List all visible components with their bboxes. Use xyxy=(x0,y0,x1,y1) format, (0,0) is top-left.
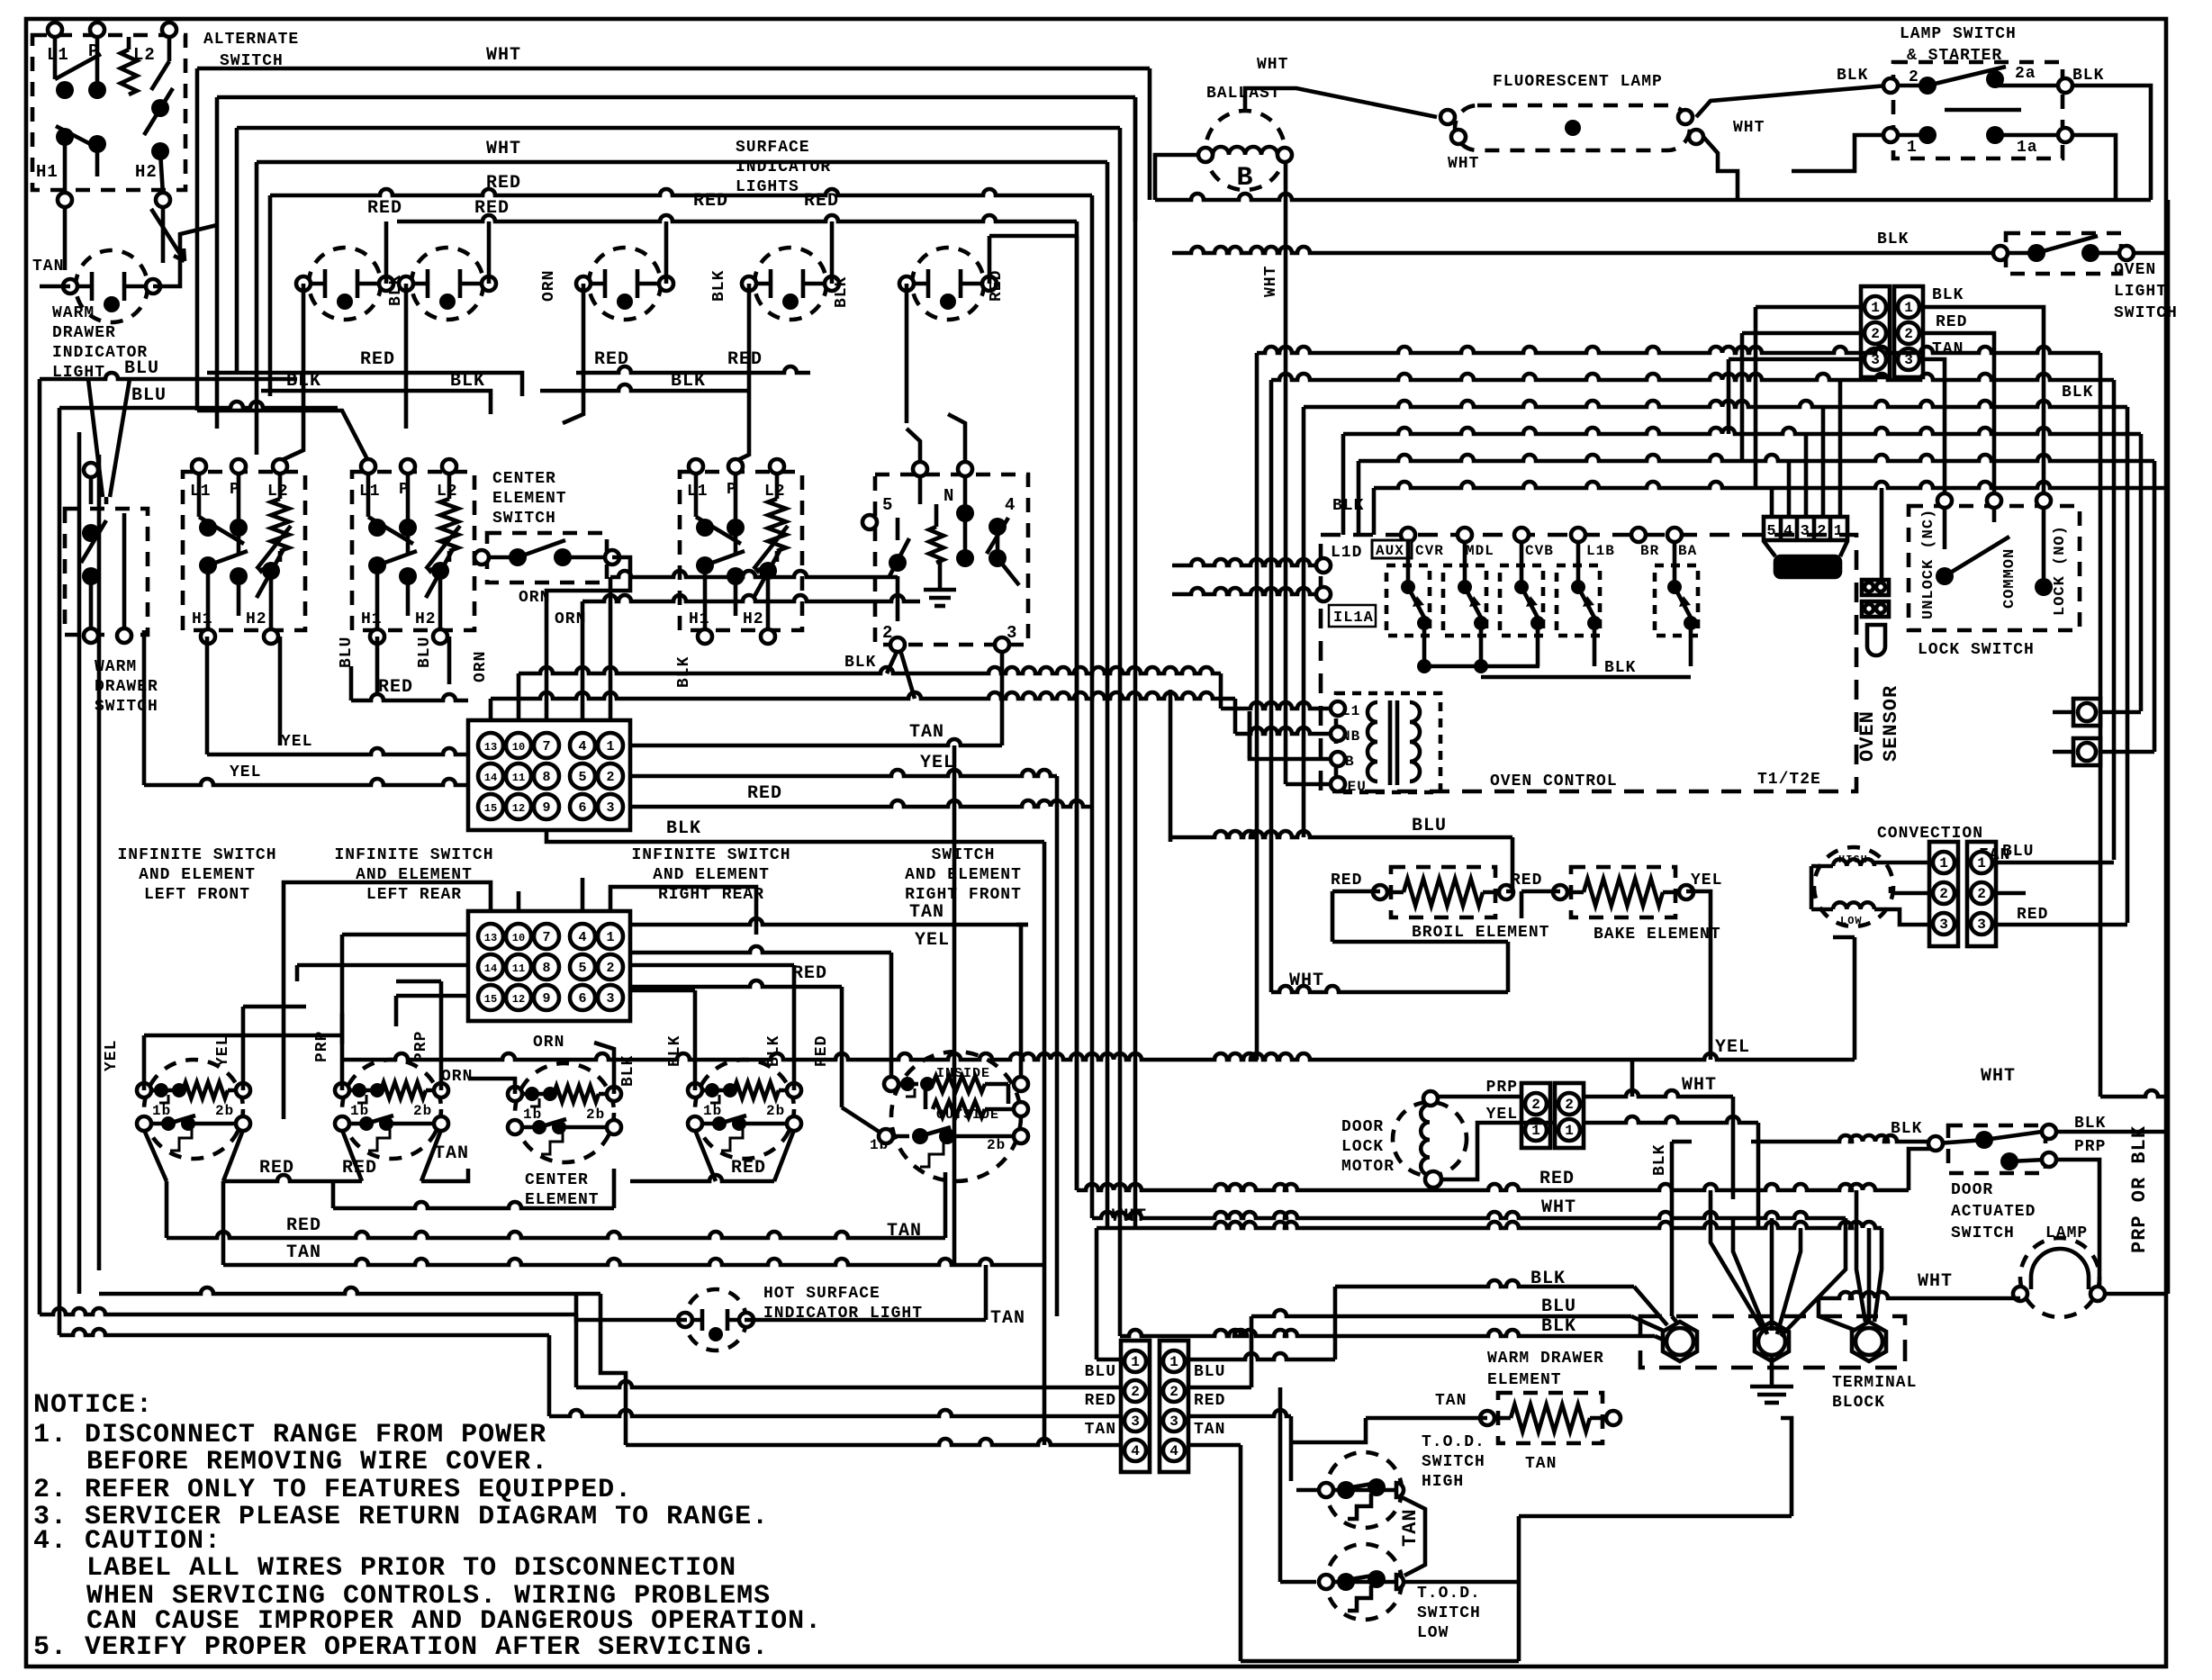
connector P10 xyxy=(1521,1083,1550,1148)
wire rb5 xyxy=(1359,455,2154,461)
svg-text:14: 14 xyxy=(484,772,497,784)
wire YEL g1r xyxy=(630,770,1057,776)
t.o.d. switch low S7 xyxy=(1326,1544,1402,1620)
svg-text:RED: RED xyxy=(727,349,763,370)
svg-text:HIGH: HIGH xyxy=(1838,854,1868,866)
wire RED is4 bus xyxy=(630,1175,774,1181)
svg-text:NOTICE:: NOTICE: xyxy=(33,1390,153,1421)
svg-text:2b: 2b xyxy=(766,1103,785,1119)
wire bundle y641 xyxy=(610,571,898,577)
wire bundle y739 xyxy=(519,667,1221,673)
svg-text:4: 4 xyxy=(1005,495,1016,515)
wire das prp out xyxy=(2056,1160,2099,1294)
connector P8 xyxy=(1929,842,1958,946)
oven light switch S9 xyxy=(2006,233,2121,274)
wire BLK g1r xyxy=(546,830,1044,842)
wire RED g2r xyxy=(630,980,842,987)
svg-text:11: 11 xyxy=(512,962,525,975)
wire RED bus6 xyxy=(397,215,1077,221)
svg-text:YEL: YEL xyxy=(230,763,261,781)
svg-text:12: 12 xyxy=(512,993,525,1006)
svg-text:10: 10 xyxy=(512,932,525,944)
svg-text:SWITCH: SWITCH xyxy=(932,846,996,864)
wire TAN long bus xyxy=(223,1259,1044,1265)
svg-text:AND ELEMENT: AND ELEMENT xyxy=(139,866,256,884)
svg-text:RED: RED xyxy=(1511,872,1542,890)
svg-text:BLU: BLU xyxy=(1085,1363,1116,1381)
terminal block outline xyxy=(1640,1316,1905,1368)
svg-text:OVEN: OVEN xyxy=(2114,261,2156,279)
svg-text:11: 11 xyxy=(512,772,525,784)
connector grid P2 xyxy=(468,911,630,1021)
svg-text:DOOR: DOOR xyxy=(1341,1118,1384,1136)
wire rb4 xyxy=(1343,428,2141,434)
wire spine x1142 xyxy=(1000,650,1005,745)
wire BLU long left xyxy=(77,432,82,1294)
wire fan pin2 out xyxy=(1996,891,2026,896)
svg-text:BLK: BLK xyxy=(671,371,706,392)
wire RED mid bus xyxy=(207,371,500,375)
svg-text:RED: RED xyxy=(813,1035,831,1067)
wire lamp wht xyxy=(1703,137,1738,200)
svg-text:LOW: LOW xyxy=(1840,915,1863,927)
svg-text:WARM DRAWER: WARM DRAWER xyxy=(1487,1350,1604,1368)
svg-text:MOTOR: MOTOR xyxy=(1341,1158,1395,1176)
svg-text:1: 1 xyxy=(606,930,614,945)
convection fan M1 xyxy=(1814,847,1893,926)
svg-text:YEL: YEL xyxy=(214,1035,232,1067)
surface indicator light DS2 xyxy=(309,248,381,320)
svg-text:RED: RED xyxy=(747,783,782,804)
svg-text:2: 2 xyxy=(1909,68,1919,86)
wire fuse1 xyxy=(2100,710,2141,715)
svg-text:SWITCH: SWITCH xyxy=(2114,304,2178,322)
wire TAN p4 out xyxy=(1188,1443,1241,1448)
svg-text:BLK: BLK xyxy=(1891,1120,1922,1138)
wire spine x1244 xyxy=(1118,221,1123,1296)
svg-text:1: 1 xyxy=(1531,1123,1540,1139)
oven control relays xyxy=(1386,565,1430,636)
terminal block hex1 xyxy=(1663,1322,1697,1361)
svg-text:ELEMENT: ELEMENT xyxy=(525,1191,600,1209)
svg-text:COMMON: COMMON xyxy=(2001,548,2018,609)
svg-text:BLK: BLK xyxy=(450,371,485,392)
wire WHT top bus xyxy=(197,67,1150,71)
svg-text:WHT: WHT xyxy=(486,139,521,159)
wire TAN g2r xyxy=(630,918,1028,925)
svg-text:HIGH: HIGH xyxy=(1422,1473,1464,1491)
wire das blk out xyxy=(2056,1130,2168,1134)
svg-text:8: 8 xyxy=(542,770,550,785)
oven control L1D xyxy=(1323,538,1331,543)
svg-text:LEFT FRONT: LEFT FRONT xyxy=(144,886,250,904)
wire wde left xyxy=(1366,1416,1487,1421)
wire WHT bus4 xyxy=(257,160,1107,165)
svg-text:2: 2 xyxy=(606,961,614,976)
surface unit switch S2 left-front xyxy=(352,472,474,630)
svg-text:BLU: BLU xyxy=(1541,1296,1576,1317)
svg-text:DRAWER: DRAWER xyxy=(95,678,158,696)
svg-text:TAN: TAN xyxy=(1399,1508,1422,1547)
svg-text:SWITCH: SWITCH xyxy=(492,510,556,528)
svg-text:BLU: BLU xyxy=(131,385,167,406)
svg-text:BLU: BLU xyxy=(416,637,434,668)
svg-text:BEFORE REMOVING WIRE COVER.: BEFORE REMOVING WIRE COVER. xyxy=(86,1447,548,1477)
connector P11 xyxy=(1555,1083,1584,1148)
svg-text:RED: RED xyxy=(367,198,402,219)
wire timer feeds xyxy=(907,429,920,464)
svg-text:5: 5 xyxy=(882,495,893,515)
svg-text:1: 1 xyxy=(1169,1354,1178,1370)
svg-text:10: 10 xyxy=(512,741,525,754)
svg-text:2: 2 xyxy=(1565,1097,1574,1113)
svg-text:B: B xyxy=(1236,163,1253,194)
svg-text:2: 2 xyxy=(1131,1384,1140,1400)
wire IS5 right feed xyxy=(1019,925,1024,1084)
broil element R1 xyxy=(1391,867,1495,917)
wire sq drop xyxy=(1672,1316,1676,1322)
svg-text:DOOR: DOOR xyxy=(1951,1181,1993,1199)
svg-text:13: 13 xyxy=(484,741,497,754)
connector P7 shroud xyxy=(1764,541,1775,556)
wire rb1 xyxy=(1257,347,2100,353)
bake element R2 xyxy=(1571,867,1675,917)
svg-text:2b: 2b xyxy=(987,1137,1006,1153)
wire RED mid bus2 xyxy=(576,366,810,373)
svg-text:ELEMENT: ELEMENT xyxy=(492,490,567,508)
svg-text:RED: RED xyxy=(360,349,395,370)
svg-text:4: 4 xyxy=(1131,1443,1140,1459)
wire RED bottom long xyxy=(59,1329,549,1335)
wire RED g1r xyxy=(630,800,1092,807)
svg-text:RED: RED xyxy=(1936,313,1967,331)
svg-text:13: 13 xyxy=(484,932,497,944)
wire wd light leads xyxy=(40,285,70,289)
connector P3 xyxy=(1121,1341,1150,1472)
svg-text:H2: H2 xyxy=(246,610,267,628)
wire spine x1196 RED xyxy=(1075,236,1079,1190)
oven control top terminals xyxy=(1401,528,1415,542)
svg-text:IL1A: IL1A xyxy=(1333,610,1374,627)
svg-text:WHT: WHT xyxy=(1918,1271,1953,1292)
oven timer switch 5-N-4 xyxy=(875,474,1028,645)
wire ballast top xyxy=(1245,88,1437,117)
wire spine x1261 xyxy=(1133,97,1138,1228)
svg-text:H2: H2 xyxy=(415,610,437,628)
wire TAN g2r2 xyxy=(1016,923,1028,927)
svg-text:2b: 2b xyxy=(586,1106,605,1123)
svg-text:SURFACE: SURFACE xyxy=(736,139,810,157)
svg-text:8: 8 xyxy=(542,961,550,976)
svg-text:TAN: TAN xyxy=(1085,1421,1116,1439)
wire xfmr NB feed xyxy=(1233,699,1238,734)
wire IS funnels xyxy=(144,1130,167,1181)
svg-text:H2: H2 xyxy=(743,610,764,628)
svg-text:4: 4 xyxy=(1783,523,1793,540)
wire spine x1230 xyxy=(1106,195,1110,1228)
svg-text:1: 1 xyxy=(1977,855,1986,872)
svg-text:BA: BA xyxy=(1678,543,1697,559)
svg-text:BLK: BLK xyxy=(833,276,851,308)
connector grid P1 xyxy=(468,720,630,830)
svg-text:14: 14 xyxy=(484,962,497,975)
wire xfmr B feed xyxy=(1250,711,1331,759)
wire rb3 xyxy=(1304,401,2127,407)
svg-text:BLK: BLK xyxy=(2062,384,2093,402)
svg-text:& STARTER: & STARTER xyxy=(1907,47,2002,65)
svg-text:3: 3 xyxy=(1939,917,1948,933)
svg-text:AUX: AUX xyxy=(1376,543,1404,559)
infinite switch center xyxy=(515,1063,614,1162)
wire WHT hex xyxy=(1135,1222,1882,1228)
wire RED door xyxy=(1077,1184,1909,1190)
svg-text:BLK: BLK xyxy=(1541,1316,1576,1337)
svg-text:RED: RED xyxy=(792,963,827,984)
svg-text:4: 4 xyxy=(578,739,586,754)
svg-text:1a: 1a xyxy=(2017,139,2038,157)
svg-text:9: 9 xyxy=(542,991,550,1007)
arrow to warm drawer light xyxy=(151,209,185,261)
svg-text:L1D: L1D xyxy=(1331,544,1362,562)
ballast B1 xyxy=(1205,111,1285,190)
svg-text:1: 1 xyxy=(1939,855,1948,872)
wire starter left wht xyxy=(1792,135,1883,171)
wire spine x1160 xyxy=(1043,842,1047,1445)
svg-text:2: 2 xyxy=(1871,326,1880,342)
svg-text:LIGHT: LIGHT xyxy=(2114,283,2167,301)
svg-text:3: 3 xyxy=(606,800,614,816)
wire sensor feed xyxy=(1880,488,1884,578)
wire YEL g1a xyxy=(207,748,468,754)
wire IS4 feeds xyxy=(693,990,698,1090)
wire lamp wht xyxy=(1819,1292,2020,1298)
wire ind risers xyxy=(384,221,389,284)
svg-text:LAMP: LAMP xyxy=(2045,1224,2088,1242)
wire TOD low feed xyxy=(1278,1387,1283,1582)
svg-text:2: 2 xyxy=(1904,326,1913,342)
svg-text:L1B: L1B xyxy=(1586,543,1615,559)
svg-text:4: 4 xyxy=(1169,1443,1178,1459)
alternate switch SW1 xyxy=(32,35,185,190)
svg-text:BLU: BLU xyxy=(338,637,356,668)
warm drawer switch S4 xyxy=(65,509,148,635)
svg-text:7: 7 xyxy=(542,930,550,945)
svg-text:BLK: BLK xyxy=(844,654,876,672)
wire ols out xyxy=(2134,251,2168,256)
svg-text:WHT: WHT xyxy=(1733,119,1765,137)
svg-text:CENTER: CENTER xyxy=(492,470,556,488)
svg-text:4. CAUTION:: 4. CAUTION: xyxy=(33,1526,221,1557)
wire bundle y766 xyxy=(491,692,1235,699)
wire IS1 feeds xyxy=(142,1035,147,1090)
svg-text:LOCK (NO): LOCK (NO) xyxy=(2052,525,2069,616)
svg-text:BR: BR xyxy=(1640,543,1659,559)
wire IS3 feeds xyxy=(468,1079,515,1094)
svg-text:BLK: BLK xyxy=(666,1035,684,1067)
svg-text:N: N xyxy=(943,486,954,506)
wire broil leads xyxy=(1332,890,1380,894)
svg-text:1: 1 xyxy=(1904,300,1913,316)
svg-text:TAN: TAN xyxy=(909,722,944,743)
svg-text:WARM: WARM xyxy=(52,304,95,322)
warm drawer element R3 xyxy=(1498,1393,1603,1443)
svg-text:LIGHTS: LIGHTS xyxy=(736,178,799,196)
transformer T1 xyxy=(1336,693,1440,792)
svg-text:RED: RED xyxy=(2017,906,2048,924)
svg-text:YEL: YEL xyxy=(1715,1037,1750,1058)
wire pin1 out xyxy=(1188,1353,1335,1359)
infinite switch left front xyxy=(144,1060,243,1159)
svg-text:LEFT REAR: LEFT REAR xyxy=(366,886,462,904)
surface indicator light DS4 xyxy=(589,248,661,320)
wire hex3 fan xyxy=(1856,1190,1865,1322)
oven control box outline xyxy=(1321,535,1856,791)
wire RED bus5 xyxy=(270,189,1092,195)
svg-text:2: 2 xyxy=(1977,886,1986,902)
svg-text:7: 7 xyxy=(542,739,550,754)
svg-text:LOCK: LOCK xyxy=(1341,1138,1384,1156)
svg-text:RED: RED xyxy=(1194,1392,1225,1410)
svg-text:BLK: BLK xyxy=(666,818,701,839)
wire spine 1244 ext xyxy=(1118,1296,1123,1336)
svg-text:WHT: WHT xyxy=(1262,266,1280,297)
svg-text:BLK: BLK xyxy=(2072,67,2104,85)
svg-text:SWITCH: SWITCH xyxy=(1417,1604,1481,1622)
svg-text:2: 2 xyxy=(606,770,614,785)
svg-text:RIGHT FRONT: RIGHT FRONT xyxy=(905,886,1022,904)
wire lamp right xyxy=(2105,1292,2168,1296)
wire bake leads xyxy=(1521,890,1560,894)
warm drawer indicator light DS1 xyxy=(76,250,148,322)
surface indicator light DS3 xyxy=(411,248,483,320)
wire bus2 xyxy=(217,95,1135,100)
wire BLK bus xyxy=(261,389,468,393)
svg-text:1: 1 xyxy=(1131,1354,1140,1370)
svg-text:1: 1 xyxy=(606,739,614,754)
wire RED p4 out xyxy=(1188,1410,1291,1416)
wire ballast left xyxy=(1155,155,1198,200)
svg-text:FLUORESCENT LAMP: FLUORESCENT LAMP xyxy=(1493,73,1663,91)
wire RED long bus xyxy=(167,1232,945,1238)
svg-text:BLK: BLK xyxy=(765,1035,783,1067)
svg-text:BAKE ELEMENT: BAKE ELEMENT xyxy=(1594,926,1721,944)
wire lamp to switch BLK xyxy=(1696,86,1887,117)
wire xfmr NEU feed xyxy=(1286,782,1331,787)
wire WHT 4pin xyxy=(1095,1228,1099,1359)
svg-text:YEL: YEL xyxy=(281,733,312,751)
svg-text:CVR: CVR xyxy=(1415,543,1444,559)
wire tod high-low link xyxy=(1402,1497,1425,1576)
wire fan to conn xyxy=(1874,861,1929,865)
svg-text:15: 15 xyxy=(484,993,497,1006)
svg-text:WHT: WHT xyxy=(1981,1066,2016,1087)
svg-text:INFINITE SWITCH: INFINITE SWITCH xyxy=(117,846,276,864)
wire relay bottom bus xyxy=(1424,664,1539,669)
svg-text:6: 6 xyxy=(578,800,586,816)
svg-text:WHT: WHT xyxy=(1448,155,1479,173)
wire IS2 feeds xyxy=(340,1013,345,1090)
svg-text:2a: 2a xyxy=(2015,65,2036,83)
svg-text:TAN: TAN xyxy=(1435,1392,1467,1410)
wire ballast right down xyxy=(1284,162,1288,784)
svg-text:WARM: WARM xyxy=(95,658,137,676)
svg-text:2b: 2b xyxy=(413,1103,432,1119)
svg-text:5: 5 xyxy=(578,770,586,785)
wire oven light feed xyxy=(1172,247,1997,253)
wire hs leads xyxy=(576,1294,687,1320)
infinite switch left rear xyxy=(342,1060,441,1159)
svg-text:2: 2 xyxy=(1169,1384,1178,1400)
wire fan blu out xyxy=(1996,861,2114,865)
svg-text:2: 2 xyxy=(1939,886,1948,902)
fuse F1 xyxy=(2073,699,2100,726)
wire left long4 xyxy=(97,455,102,1270)
svg-text:SWITCH: SWITCH xyxy=(1422,1453,1485,1471)
svg-text:HOT SURFACE: HOT SURFACE xyxy=(763,1285,880,1303)
svg-text:RED: RED xyxy=(1539,1169,1575,1189)
surface unit switch S3 right xyxy=(680,472,802,630)
svg-text:BLK: BLK xyxy=(1332,497,1364,515)
svg-text:RED: RED xyxy=(259,1158,294,1179)
svg-text:6: 6 xyxy=(578,991,586,1007)
svg-text:YEL: YEL xyxy=(1691,872,1722,890)
svg-text:RED: RED xyxy=(286,1215,321,1236)
hot surface indicator light DS7 xyxy=(685,1289,746,1350)
svg-text:LOW: LOW xyxy=(1417,1624,1449,1642)
svg-text:1: 1 xyxy=(1871,300,1880,316)
svg-text:CENTER: CENTER xyxy=(525,1171,589,1189)
svg-text:SWITCH: SWITCH xyxy=(95,698,158,716)
svg-text:PRP: PRP xyxy=(412,1031,430,1062)
svg-text:TAN: TAN xyxy=(1932,340,1964,358)
infinite switch right rear xyxy=(695,1060,794,1159)
svg-text:BLU: BLU xyxy=(1194,1363,1225,1381)
lock switch S10 xyxy=(1909,506,2080,630)
wire alt sw stubs xyxy=(63,206,68,270)
wire lamp bottom bus xyxy=(1155,194,2151,200)
svg-text:BLK: BLK xyxy=(286,371,321,392)
wire grid2 top feeds xyxy=(284,882,491,1119)
terminal block hex3 xyxy=(1852,1322,1886,1361)
svg-text:YEL: YEL xyxy=(103,1040,121,1071)
connector P6 xyxy=(1894,286,1923,377)
wire spine blu xyxy=(1169,690,1173,837)
t.o.d. switch high S6 xyxy=(1326,1452,1402,1528)
svg-text:WHT: WHT xyxy=(1289,971,1324,991)
svg-text:TAN: TAN xyxy=(1525,1455,1557,1473)
svg-text:TAN: TAN xyxy=(909,902,944,923)
connector P5 xyxy=(1861,286,1890,377)
wire spine xb xyxy=(1248,711,1252,759)
svg-text:RED: RED xyxy=(486,173,521,194)
center element switch S5 xyxy=(487,533,607,583)
svg-text:1: 1 xyxy=(1834,523,1844,540)
svg-text:2. REFER ONLY TO FEATURES EQUI: 2. REFER ONLY TO FEATURES EQUIPPED. xyxy=(33,1475,632,1505)
svg-text:3: 3 xyxy=(1131,1414,1140,1430)
svg-text:ORN: ORN xyxy=(540,270,558,302)
svg-text:ALTERNATE: ALTERNATE xyxy=(203,31,299,49)
wire dlm to conn xyxy=(1438,1095,1521,1099)
svg-text:INFINITE SWITCH: INFINITE SWITCH xyxy=(631,846,790,864)
wire grid2 left risers xyxy=(340,935,345,1044)
svg-text:BLK: BLK xyxy=(1604,659,1636,677)
svg-text:UNLOCK (NC): UNLOCK (NC) xyxy=(1920,509,1937,619)
fluorescent lamp DS8 xyxy=(1455,105,1690,150)
wire BLK trio3 xyxy=(1120,1330,1655,1336)
svg-text:PRP OR BLK: PRP OR BLK xyxy=(2128,1125,2151,1253)
terminal block hex2 xyxy=(1755,1322,1789,1361)
svg-text:YEL: YEL xyxy=(915,930,950,951)
